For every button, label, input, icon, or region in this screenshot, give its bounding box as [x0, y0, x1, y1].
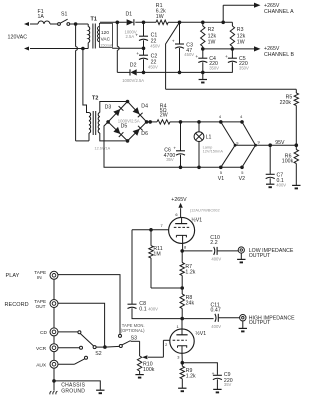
- capacitor C10: [214, 247, 217, 255]
- label D5: [121, 123, 128, 129]
- svg-text:35V: 35V: [224, 382, 232, 387]
- wire CD to contact: [58, 331, 78, 333]
- jack TAPE IN: [50, 271, 58, 279]
- label D4: [141, 103, 148, 109]
- label TAPE OUT: [34, 299, 46, 309]
- label C6: [164, 147, 176, 162]
- pin 3 V1B: [177, 355, 179, 360]
- resistor R11: [149, 230, 153, 288]
- pin 1 V1B: [177, 324, 179, 329]
- svg-text:+: +: [136, 52, 139, 57]
- wire heater bottom rail: [181, 166, 243, 168]
- node doubler output: [142, 21, 146, 25]
- node C6 bottom: [179, 166, 183, 170]
- svg-text:400V: 400V: [148, 306, 158, 311]
- label T2: [92, 95, 98, 101]
- capacitor C3: [172, 22, 184, 72]
- wire AUX to contact: [58, 359, 85, 364]
- wire +265V channel A takeoff: [223, 3, 260, 23]
- svg-text:5: 5: [241, 170, 243, 175]
- node V1 fil top: [219, 120, 223, 124]
- label C4: [209, 56, 219, 70]
- svg-text:RECORD: RECORD: [5, 302, 29, 308]
- node bridge right: [145, 120, 149, 124]
- node negative rail C2: [142, 71, 146, 75]
- wire S3 to R10: [129, 340, 132, 343]
- svg-text:100k: 100k: [143, 367, 155, 373]
- label C1: [150, 33, 160, 49]
- wire hot feed down to T2 primary (crossover hop): [76, 24, 78, 141]
- label LOW IMPEDANCE OUTPUT: [249, 248, 294, 259]
- wire plate to C11: [182, 318, 213, 320]
- ground earth: [96, 390, 104, 393]
- label C11: [211, 302, 222, 329]
- svg-text:9: 9: [236, 140, 238, 145]
- label R2: [208, 27, 217, 45]
- wire bridge negative out: [104, 122, 181, 167]
- label V2: [239, 176, 246, 182]
- label R3: [237, 27, 246, 45]
- node C6 top: [179, 120, 183, 124]
- svg-text:1M: 1M: [153, 252, 160, 258]
- svg-text:1A: 1A: [38, 14, 45, 20]
- svg-text:VCR: VCR: [36, 346, 47, 352]
- wire chassis to earth: [54, 381, 100, 390]
- label half V1 upper: [191, 216, 202, 223]
- transformer T1 primary: [76, 24, 90, 49]
- resistor R5: [294, 89, 298, 145]
- label 120VAC: [8, 34, 28, 40]
- pin 9 V2: [258, 140, 260, 145]
- ground R10: [135, 375, 143, 378]
- diode D6: [133, 126, 143, 136]
- svg-text:150mA: 150mA: [100, 42, 113, 47]
- resistor R2: [201, 22, 205, 49]
- fuse F1: [38, 21, 58, 24]
- capacitor C6: [173, 122, 185, 167]
- resistor R7: [180, 251, 184, 288]
- capacitor C4: [195, 49, 207, 73]
- svg-text:V2: V2: [239, 176, 246, 182]
- node V1 fil bottom: [219, 166, 223, 170]
- node C3 bottom: [178, 71, 182, 75]
- switch S2 contact CD: [78, 331, 81, 334]
- wire divider rail to R5: [166, 88, 297, 90]
- tube V1A cathode: [176, 235, 186, 251]
- lamp L1: [194, 122, 204, 167]
- svg-text:+: +: [135, 33, 138, 38]
- svg-text:7: 7: [161, 223, 163, 228]
- ground high-Z jack: [239, 321, 247, 332]
- label S1: [61, 11, 68, 17]
- node V1A cathode: [180, 249, 184, 253]
- switch S3 contact upper: [119, 334, 122, 337]
- svg-text:OUTPUT: OUTPUT: [249, 253, 271, 259]
- pin 5 V2: [241, 170, 243, 175]
- capacitor C5: [225, 49, 237, 73]
- svg-text:+: +: [212, 372, 215, 377]
- pin 9 V1: [236, 140, 238, 145]
- label C5: [239, 56, 249, 70]
- resistor R8: [180, 288, 184, 319]
- node secondary top tap: [116, 21, 120, 25]
- wire bridge positive out: [147, 121, 157, 123]
- node neutral junction: [81, 47, 85, 51]
- svg-text:1W: 1W: [237, 39, 245, 45]
- label R6: [282, 154, 294, 165]
- label R9: [186, 368, 196, 379]
- pin 6 V1A: [175, 212, 177, 217]
- ground C9: [213, 389, 221, 392]
- wire negative rail: [137, 71, 233, 73]
- wire TAPE OUT to selector common: [58, 303, 105, 347]
- jack CD: [50, 328, 58, 336]
- svg-text:1W: 1W: [156, 14, 164, 20]
- label S3: [131, 336, 138, 342]
- svg-text:0.47: 0.47: [211, 307, 221, 313]
- label T1 secondary rating: [100, 30, 113, 47]
- node channel A tap: [221, 21, 225, 25]
- svg-text:2: 2: [165, 342, 167, 347]
- diode D2: [130, 69, 137, 75]
- wire R11 to cathode divider: [151, 287, 182, 289]
- wire common to S3: [105, 345, 120, 348]
- wire B+ rail right: [180, 21, 233, 23]
- label F1 1A: [38, 9, 45, 20]
- wire VCR to contact: [58, 347, 80, 349]
- wire bleed diagonal: [166, 22, 180, 89]
- svg-text:0.1: 0.1: [139, 307, 146, 313]
- capacitor C2: [136, 48, 148, 72]
- label C2: [148, 54, 158, 70]
- node C7 top: [268, 143, 272, 147]
- svg-text:+: +: [172, 39, 175, 44]
- transformer T1 secondary box: [97, 23, 112, 47]
- svg-text:1.2k: 1.2k: [185, 270, 195, 276]
- svg-text:2.5A: 2.5A: [126, 34, 135, 39]
- label C3: [184, 42, 194, 57]
- label HIGH IMPEDANCE OUTPUT: [249, 315, 295, 326]
- svg-text:AUX: AUX: [36, 362, 47, 368]
- pin 5 V1: [220, 170, 222, 175]
- label TAPE IN: [34, 270, 46, 280]
- node R2 bottom: [201, 47, 205, 51]
- svg-text:D3: D3: [105, 104, 112, 110]
- label R7: [185, 264, 195, 275]
- transformer T1 core: [93, 24, 95, 49]
- svg-text:95V: 95V: [275, 140, 285, 146]
- svg-text:S1: S1: [61, 11, 68, 17]
- resistor R6: [294, 145, 298, 185]
- svg-text:(12AU7/WBC002: (12AU7/WBC002: [190, 208, 220, 213]
- ground C7: [266, 184, 274, 187]
- svg-text:8: 8: [184, 244, 186, 249]
- svg-text:+: +: [195, 55, 198, 60]
- label R11: [153, 246, 162, 257]
- resistor R9: [180, 363, 184, 388]
- label L1: [206, 134, 212, 140]
- label S2: [95, 351, 102, 357]
- label C8: [139, 301, 158, 312]
- tube V1A envelope: [169, 217, 195, 243]
- svg-text:S2: S2: [95, 351, 102, 357]
- svg-text:400V: 400V: [211, 324, 221, 329]
- svg-text:3: 3: [177, 355, 179, 360]
- svg-text:V1: V1: [218, 176, 225, 182]
- heater V1 filament: [221, 122, 237, 167]
- svg-text:350V: 350V: [239, 66, 249, 71]
- svg-text:½V1: ½V1: [195, 330, 206, 337]
- ground low-Z jack: [237, 253, 245, 262]
- ground R6: [292, 185, 300, 188]
- pin 4 V1: [219, 114, 222, 119]
- ground R9: [178, 388, 186, 391]
- jack TAPE OUT: [50, 300, 58, 308]
- label C9: [224, 372, 233, 387]
- node bridge bottom: [126, 139, 130, 143]
- switch S3 arm: [122, 341, 130, 345]
- svg-text:+: +: [225, 55, 228, 60]
- svg-text:6: 6: [175, 212, 177, 217]
- label D3: [105, 104, 112, 110]
- node R7 R8 junction: [180, 286, 184, 290]
- jack AUX: [50, 360, 58, 368]
- label R8: [186, 295, 195, 306]
- wire cathode to C10: [182, 250, 212, 252]
- label PLAY: [6, 273, 20, 279]
- wire neutral feed down to T2 primary: [83, 49, 89, 113]
- svg-text:12V/150mA: 12V/150mA: [203, 149, 224, 154]
- capacitor C7: [266, 145, 275, 184]
- wire T2 primary bottom: [76, 140, 89, 142]
- wire wiper to grid: [142, 355, 163, 359]
- svg-text:PLAY: PLAY: [6, 273, 20, 279]
- wire B+ rail (secondary top to R1): [100, 21, 156, 23]
- svg-text:CHANNEL B: CHANNEL B: [264, 52, 294, 58]
- svg-text:2.2: 2.2: [210, 240, 217, 246]
- svg-text:450V: 450V: [150, 43, 160, 48]
- svg-text:35V: 35V: [166, 157, 174, 162]
- svg-text:450V: 450V: [184, 52, 194, 57]
- switch S2 contact AUX: [85, 356, 88, 359]
- label V1: [218, 176, 225, 182]
- svg-text:9: 9: [258, 140, 260, 145]
- label CD: [40, 330, 47, 336]
- svg-text:S3: S3: [131, 336, 138, 342]
- label +265V plate supply: [171, 197, 187, 203]
- chassis ground symbol: [50, 381, 58, 395]
- node chassis junction: [52, 379, 56, 383]
- wire C11 to high-Z jack: [219, 317, 240, 319]
- pin 4 V2: [240, 114, 243, 119]
- wire C8 top feed: [131, 230, 133, 304]
- jack high impedance output: [240, 315, 246, 321]
- diode D5: [113, 127, 123, 137]
- transformer T2 primary: [89, 113, 91, 141]
- tube V1B plate: [176, 319, 187, 335]
- label T2 rating: [95, 147, 111, 151]
- label half V1 lower: [195, 330, 206, 337]
- svg-text:+265V: +265V: [171, 197, 187, 203]
- svg-text:OUT: OUT: [36, 304, 46, 309]
- switch S2 wiper: [80, 334, 105, 349]
- label D1 rating: [125, 29, 137, 39]
- wire TAPE IN to S3: [58, 275, 121, 335]
- wire channel B node: [203, 46, 261, 51]
- capacitor C1: [135, 22, 148, 48]
- resistor R1: [156, 20, 180, 24]
- svg-text:R3: R3: [237, 27, 244, 33]
- svg-text:D6: D6: [141, 131, 148, 137]
- pin 2 V1B: [165, 342, 167, 347]
- svg-text:1000V/2.5A: 1000V/2.5A: [122, 78, 144, 83]
- tube V1B grid: [173, 339, 187, 341]
- transformer T2 core: [93, 111, 96, 135]
- wire doubler return (down to D2 rail, crossover hop): [117, 22, 130, 72]
- svg-text:1: 1: [177, 324, 179, 329]
- wire center-tap rail: [112, 47, 143, 49]
- svg-text:D5: D5: [121, 123, 128, 129]
- svg-text:24k: 24k: [186, 301, 195, 307]
- diode D3: [113, 106, 123, 116]
- label C7: [276, 172, 286, 187]
- svg-text:12.6V/1A: 12.6V/1A: [95, 147, 111, 151]
- svg-text:(OPTIONAL): (OPTIONAL): [121, 328, 146, 333]
- label TAPE MON OPTIONAL: [121, 323, 146, 333]
- label bridge rating: [118, 118, 140, 123]
- diode D1: [127, 19, 134, 25]
- label D1: [126, 12, 133, 18]
- svg-text:+: +: [173, 145, 176, 150]
- node V1B plate junction: [180, 317, 184, 321]
- svg-text:VAC: VAC: [101, 37, 111, 42]
- wire heater top rail: [181, 121, 243, 123]
- resistor R3: [230, 22, 234, 49]
- wire heater bias node: [235, 144, 296, 146]
- svg-text:1000V/2.5A: 1000V/2.5A: [118, 118, 140, 123]
- wire cathode to C9: [182, 363, 217, 375]
- wire jack ground bus: [53, 279, 55, 381]
- svg-text:GROUND: GROUND: [61, 389, 85, 395]
- svg-text:400V: 400V: [276, 183, 286, 188]
- svg-text:220k: 220k: [280, 100, 292, 106]
- heater V2 filament: [242, 122, 257, 167]
- wire 120VAC neutral lead: [24, 47, 88, 51]
- svg-text:R2: R2: [208, 27, 215, 33]
- label L1 rating: [203, 145, 224, 154]
- wire bridge diamond: [108, 102, 147, 141]
- capacitor C9: [212, 372, 222, 389]
- capacitor C8: [128, 304, 183, 318]
- node R6 top: [295, 143, 299, 147]
- label AUX: [36, 362, 47, 368]
- node V2 fil top: [240, 120, 244, 124]
- svg-text:IN: IN: [37, 275, 42, 280]
- svg-text:CHANNEL A: CHANNEL A: [264, 9, 294, 15]
- svg-text:120: 120: [101, 30, 109, 35]
- jack low impedance output: [238, 247, 244, 253]
- node L1 bottom: [197, 166, 201, 170]
- svg-text:L1: L1: [206, 134, 212, 140]
- ground supply: [199, 72, 207, 82]
- wire V1A plate supply: [178, 203, 182, 218]
- svg-text:T2: T2: [92, 95, 98, 101]
- node C4 ground junction: [201, 71, 205, 75]
- potentiometer R10: [131, 341, 142, 374]
- svg-text:350V: 350V: [209, 66, 219, 71]
- label tube type: [190, 208, 220, 213]
- svg-text:120VAC: 120VAC: [8, 34, 28, 40]
- svg-text:450V: 450V: [148, 65, 158, 70]
- switch S3 contact lower: [119, 345, 122, 348]
- node L1 top: [197, 120, 201, 124]
- wire C10 to low-Z jack: [217, 250, 238, 252]
- tube V1B envelope: [170, 329, 194, 353]
- node R11 top: [149, 228, 153, 232]
- svg-text:5: 5: [220, 170, 222, 175]
- label C10: [210, 235, 221, 262]
- node bridge top: [126, 100, 130, 104]
- jack VCR: [50, 344, 58, 352]
- diode D4: [133, 107, 143, 117]
- transformer T2 secondary: [98, 102, 127, 141]
- label D6: [141, 131, 148, 137]
- wire V1B grid lead: [163, 340, 170, 357]
- label +265V CHANNEL B: [264, 46, 294, 58]
- node R4 input: [148, 120, 152, 124]
- label RECORD: [5, 302, 29, 308]
- tube V1B cathode: [178, 346, 187, 363]
- node R3 bottom: [231, 47, 235, 51]
- label VCR: [36, 346, 47, 352]
- label 95V: [275, 140, 285, 146]
- svg-text:D1: D1: [126, 12, 133, 18]
- wire V1A grid rail: [132, 229, 169, 231]
- label D2: [130, 63, 137, 69]
- node V1B cathode: [181, 361, 185, 365]
- node switch output: [74, 22, 78, 26]
- switch S1: [58, 19, 76, 25]
- node R1 output: [178, 21, 182, 25]
- capacitor C11: [215, 314, 218, 322]
- tube V1A grid: [174, 226, 189, 228]
- label CHASSIS GROUND: [61, 383, 85, 395]
- node bridge left: [106, 120, 110, 124]
- resistor R4: [157, 120, 181, 124]
- svg-text:D2: D2: [130, 63, 137, 69]
- wire 120VAC hot lead: [24, 22, 38, 26]
- svg-text:T1: T1: [91, 16, 97, 22]
- pin 7 V1A: [161, 223, 163, 228]
- svg-text:1.2k: 1.2k: [186, 374, 196, 380]
- svg-text:OUTPUT: OUTPUT: [249, 320, 271, 326]
- svg-text:1W: 1W: [208, 39, 216, 45]
- svg-text:100k: 100k: [282, 158, 294, 164]
- svg-text:400V: 400V: [211, 257, 221, 262]
- label R1: [156, 3, 166, 20]
- svg-text:2W: 2W: [160, 112, 168, 118]
- label D2 rating: [122, 78, 144, 83]
- label R10: [143, 362, 155, 373]
- switch S2 contact VCR: [80, 346, 83, 349]
- pin 8 V1A: [184, 244, 186, 249]
- tube V1A plate: [175, 218, 187, 224]
- node R2 top: [201, 21, 205, 25]
- node selector common: [103, 345, 107, 349]
- svg-text:D4: D4: [141, 103, 148, 109]
- label R5: [280, 95, 293, 106]
- label T1: [91, 16, 97, 22]
